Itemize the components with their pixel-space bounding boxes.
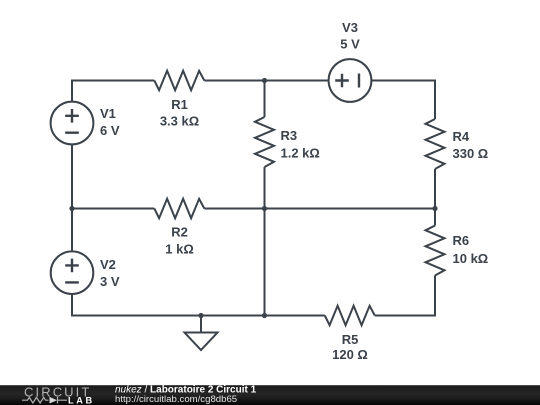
svg-text:1 kΩ: 1 kΩ [165, 242, 194, 257]
svg-text:10 kΩ: 10 kΩ [453, 251, 489, 266]
wire V2 to bottom-left corner and bottom wire [72, 294, 325, 315]
CircuitLab logo LAB text [68, 395, 95, 405]
svg-text:V2: V2 [100, 257, 116, 272]
svg-text:R5: R5 [342, 332, 359, 347]
voltage source V2 [51, 251, 94, 294]
svg-text:V3: V3 [342, 20, 358, 35]
svg-text:6 V: 6 V [100, 123, 120, 138]
svg-text:LAB: LAB [68, 395, 95, 405]
node middle-center [262, 206, 267, 211]
footer title text [115, 385, 257, 405]
node bottom-center [262, 313, 267, 318]
svg-text:R2: R2 [171, 225, 188, 240]
svg-text:120 Ω: 120 Ω [332, 347, 368, 362]
ground [185, 316, 218, 351]
label R3 value [281, 128, 320, 161]
label R1 value [160, 97, 199, 129]
wire top-left from V1 to R1 [72, 81, 154, 102]
svg-text:V1: V1 [100, 106, 116, 121]
label R5 value [332, 332, 368, 362]
wire R3 to middle wire [264, 167, 266, 209]
node middle-left [69, 206, 74, 211]
wire middle-left to R2 [72, 208, 154, 210]
node ground [198, 313, 203, 318]
wire middle-left node to V2 [71, 209, 73, 252]
CircuitLab logo wordmark [24, 385, 91, 400]
resistor R4 [426, 119, 445, 169]
svg-text:http://circuitlab.com/cg8db65: http://circuitlab.com/cg8db65 [115, 394, 237, 405]
label V3 value [340, 20, 360, 52]
svg-text:R3: R3 [281, 128, 298, 143]
wire V1 to middle-left node [71, 144, 73, 208]
label R4 value [453, 129, 489, 161]
CircuitLab logo schematic glyph [22, 397, 67, 404]
svg-text:R4: R4 [453, 129, 470, 144]
svg-text:1.2 kΩ: 1.2 kΩ [281, 146, 320, 161]
resistor R1 [154, 71, 204, 90]
label V2 value [100, 257, 120, 289]
voltage source V3 [329, 59, 372, 102]
wire middle-right node to R6 [434, 209, 436, 226]
footer bar [0, 385, 540, 405]
label V1 value [100, 106, 120, 138]
label R2 value [165, 225, 194, 257]
wire R2 to middle-right node [204, 208, 435, 210]
wire V3 to top-right corner down to R4 [371, 81, 435, 120]
resistor R2 [154, 199, 204, 218]
wire R1 to V3 [204, 80, 328, 82]
wire middle node down to bottom wire [264, 209, 266, 316]
svg-text:R6: R6 [453, 233, 470, 248]
resistor R6 [426, 226, 445, 276]
wire node A vertical to R3 [264, 81, 266, 118]
svg-text:5 V: 5 V [340, 37, 360, 52]
resistor R3 [255, 117, 274, 167]
svg-text:R1: R1 [171, 97, 188, 112]
voltage source V1 [51, 102, 94, 145]
wire R6 to bottom-right corner to R5 [375, 276, 435, 316]
resistor R5 [325, 306, 375, 325]
svg-text:3 V: 3 V [100, 274, 120, 289]
label R6 value [453, 233, 489, 266]
node top at R3 top [262, 78, 267, 83]
svg-text:3.3 kΩ: 3.3 kΩ [160, 114, 199, 129]
node middle-right [432, 206, 437, 211]
wire R4 to middle-right node [434, 169, 436, 209]
svg-text:330 Ω: 330 Ω [453, 146, 489, 161]
